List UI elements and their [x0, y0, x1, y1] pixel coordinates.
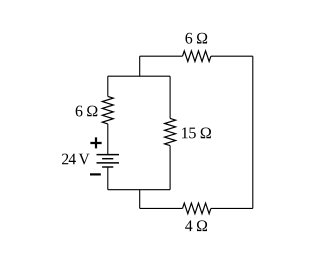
battery V1: short plate	[102, 158, 113, 160]
wire: outer right vertical segment	[252, 56, 254, 208]
label: 24 V (battery value)	[62, 154, 90, 165]
wire: left branch upper segment	[107, 76, 109, 96]
battery V1 24V: positive long plate (top)	[97, 154, 120, 156]
wire: 15-ohm branch upper segment	[169, 76, 171, 118]
label: 4 ohm (bottom resistor value)	[185, 220, 207, 231]
label: plus sign at battery positive terminal	[90, 137, 101, 148]
wire: top junction riser from inner loop to outer loop	[139, 56, 141, 76]
resistor 6-ohm top (horizontal)	[183, 51, 211, 62]
label: minus sign at battery negative terminal	[90, 173, 101, 175]
battery V1: second long plate	[97, 162, 120, 164]
wire: outer bottom left segment	[140, 207, 183, 209]
label: 6 ohm (left resistor value)	[76, 106, 98, 117]
battery V1: negative short plate (bottom)	[102, 166, 113, 168]
wire: 15-ohm branch lower segment	[169, 146, 171, 190]
resistor 6-ohm left (vertical)	[102, 96, 113, 124]
wire: battery negative to inner loop bottom	[107, 167, 109, 190]
wire: between left 6-ohm resistor and battery positive plate	[107, 124, 109, 155]
wire: outer bottom right segment	[211, 207, 253, 209]
wire: inner loop bottom	[108, 189, 170, 191]
label: 15 ohm (middle resistor value)	[182, 128, 211, 139]
wire: outer top right segment	[211, 55, 253, 57]
wire: bottom junction riser from outer loop to inner loop	[139, 190, 141, 209]
label: 6 ohm (top resistor value)	[185, 33, 207, 44]
resistor 4-ohm bottom (horizontal)	[183, 203, 211, 214]
wire: inner loop top (node between left branch and 15-ohm branch)	[108, 75, 170, 77]
wire: outer top left segment	[140, 55, 183, 57]
resistor 15-ohm (vertical middle branch)	[165, 118, 176, 145]
